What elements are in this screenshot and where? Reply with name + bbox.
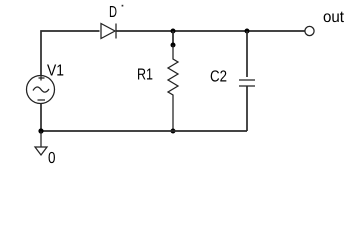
wire: node at C2 to out terminal bbox=[247, 30, 305, 32]
svg-text:C2: C2 bbox=[210, 69, 227, 86]
svg-text:V1: V1 bbox=[47, 63, 64, 80]
junction: top wire to C2 bbox=[245, 29, 250, 34]
wire: V1 minus terminal down to ground node bbox=[40, 104, 42, 132]
voltage source V1 bbox=[27, 76, 55, 104]
terminal out bbox=[305, 26, 314, 35]
junction: R1 bottom to ground wire bbox=[171, 129, 176, 134]
dot mark right of label D bbox=[122, 5, 124, 7]
junction: top wire to R1 bbox=[171, 29, 176, 34]
resistor R1 bbox=[168, 45, 178, 131]
svg-text:D: D bbox=[109, 4, 117, 21]
junction: ground node bbox=[38, 128, 43, 133]
wire: V1 plus terminal up and across to diode D anode bbox=[41, 31, 100, 76]
wire: bottom ground net from node to C2 bottom bbox=[41, 130, 247, 132]
svg-text:out: out bbox=[323, 9, 345, 26]
svg-text:0: 0 bbox=[48, 150, 56, 167]
wire: diode D cathode to node at R1 bbox=[116, 30, 173, 32]
ground symbol 0 bbox=[35, 131, 47, 155]
diode D bbox=[101, 24, 116, 39]
capacitor C2 bbox=[239, 31, 255, 131]
junction: R1 top pin dot bbox=[171, 43, 176, 48]
svg-text:R1: R1 bbox=[137, 67, 153, 84]
wire: junction down to R1 top pin bbox=[172, 31, 174, 45]
wire: node at R1 to node at C2 bbox=[173, 30, 247, 32]
